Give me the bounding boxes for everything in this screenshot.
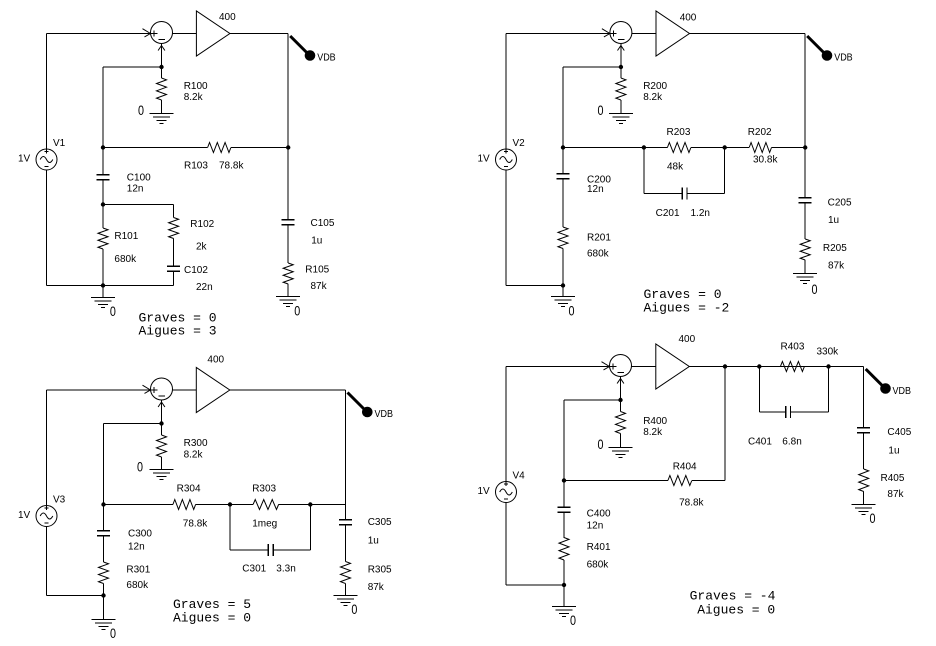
node R303 left	[228, 502, 232, 506]
svg-text:78.8k: 78.8k	[183, 519, 208, 530]
wire C100 to R101	[102, 180, 104, 229]
wire C400 to R401	[563, 512, 565, 538]
capacitor C301 3.3n	[267, 544, 269, 556]
summer U2a	[610, 22, 632, 44]
node ground Q2	[561, 283, 565, 287]
ground R400	[609, 447, 633, 449]
wire summer bottom lead Q3	[161, 400, 163, 424]
svg-text:C400: C400	[587, 509, 611, 520]
svg-text:8.2k: 8.2k	[643, 427, 663, 438]
svg-text:R304: R304	[177, 483, 201, 494]
resistor R203 48k	[667, 143, 691, 153]
wire bottom return Q3	[47, 595, 104, 597]
svg-text:0: 0	[110, 626, 116, 641]
svg-text:0: 0	[812, 282, 818, 297]
wire output riser Q4	[863, 367, 865, 428]
svg-text:0: 0	[110, 304, 116, 319]
wire C205 to R205	[804, 203, 806, 240]
svg-text:0: 0	[598, 437, 604, 452]
svg-text:1V: 1V	[478, 154, 491, 165]
capacitor C201 1.2n	[681, 187, 683, 199]
wire V2 top to summer input	[506, 33, 610, 35]
svg-text:R203: R203	[667, 127, 691, 138]
wire node to R102 branch	[103, 204, 174, 206]
wire C301 bottom left	[230, 549, 268, 551]
svg-text:C300: C300	[128, 529, 152, 540]
wire C401 bottom right	[791, 411, 829, 413]
source V3	[36, 506, 57, 527]
wire V4 riser upper	[505, 367, 507, 482]
wire output riser Q2	[804, 34, 806, 198]
svg-text:R303: R303	[252, 483, 276, 494]
svg-text:C401: C401	[748, 436, 772, 447]
capacitor C200 12n	[557, 173, 570, 175]
wire bottom return Q1	[47, 285, 174, 287]
svg-text:Aigues = 0: Aigues = 0	[697, 603, 775, 618]
wire R300 top lead	[161, 424, 163, 436]
svg-text:R401: R401	[587, 542, 611, 553]
wire row left segment Q2	[563, 147, 644, 149]
wire C105 to R105	[287, 225, 289, 264]
wire feedback stub Q3	[104, 423, 162, 425]
wire V3 top to summer input	[47, 389, 151, 391]
wire R400 top lead	[620, 400, 622, 412]
resistor R301 680k	[99, 562, 109, 584]
svg-text:C405: C405	[887, 427, 911, 438]
svg-text:R202: R202	[748, 127, 772, 138]
wire R303 left lead	[230, 504, 253, 506]
wire C305 to R305	[345, 525, 347, 562]
svg-text:VDB: VDB	[893, 386, 912, 397]
svg-text:1u: 1u	[888, 445, 899, 456]
wire C201 bottom left	[644, 193, 682, 195]
node junction below summer Q2	[619, 65, 623, 69]
svg-text:400: 400	[679, 334, 696, 345]
wire feedback stub Q2	[563, 66, 621, 68]
svg-text:680k: 680k	[587, 249, 610, 260]
svg-text:78.8k: 78.8k	[219, 161, 244, 172]
wire V1 riser upper	[46, 34, 48, 150]
node R103 right Q1	[286, 145, 290, 149]
svg-text:8.2k: 8.2k	[184, 450, 204, 461]
wire feedback stub Q4	[564, 399, 621, 401]
capacitor C401 6.8n	[785, 406, 787, 418]
svg-text:400: 400	[680, 13, 697, 24]
wire V3 riser lower	[46, 527, 48, 596]
wire C301 bottom right	[273, 549, 310, 551]
resistor R401 680k	[559, 538, 569, 561]
wire left column Q3 upper	[103, 424, 105, 531]
node R103 left Q1	[101, 145, 105, 149]
wire summer to amp Q3	[172, 389, 196, 391]
probe VDB Q4	[866, 369, 883, 386]
wire R203 left lead	[644, 147, 668, 149]
resistor R200	[616, 78, 626, 100]
resistor R403 330k	[780, 362, 804, 372]
wire R202 left lead	[725, 147, 750, 149]
svg-text:R404: R404	[673, 461, 697, 472]
wire summer bottom lead	[161, 44, 163, 68]
node row left Q4	[562, 478, 566, 482]
wire C300 to R301	[103, 536, 105, 563]
wire C405 to R405	[863, 433, 865, 469]
wire row right segment Q4	[692, 480, 725, 482]
svg-text:12n: 12n	[587, 521, 604, 532]
ground bottom Q3	[92, 619, 116, 621]
svg-text:R205: R205	[823, 243, 847, 254]
svg-text:400: 400	[207, 355, 224, 366]
wire row left segment Q4	[564, 480, 668, 482]
wire R200 bottom lead	[620, 100, 622, 114]
svg-text:R103: R103	[184, 161, 208, 172]
node ground Q1	[101, 283, 105, 287]
wire R203 right lead	[691, 147, 725, 149]
svg-text:0: 0	[138, 103, 144, 118]
svg-text:R300: R300	[184, 438, 208, 449]
wire amp output	[230, 33, 288, 35]
resistor R300	[157, 435, 167, 457]
capacitor C100 12n	[97, 174, 110, 176]
svg-text:400: 400	[219, 12, 236, 23]
wire summer to amp	[172, 33, 196, 35]
svg-text:2k: 2k	[196, 241, 208, 252]
resistor R105 87k	[283, 263, 293, 284]
op-amp E1 gain 400	[196, 11, 230, 56]
svg-text:R405: R405	[881, 473, 905, 484]
resistor R205 87k	[800, 239, 810, 260]
svg-text:87k: 87k	[368, 582, 385, 593]
ground output Q2	[793, 273, 817, 275]
wire amp output Q3	[230, 389, 346, 391]
svg-text:22n: 22n	[196, 282, 213, 293]
svg-text:1V: 1V	[478, 486, 491, 497]
capacitor C300 12n	[97, 530, 110, 532]
source V1	[36, 149, 57, 170]
wire C200 to R201	[562, 179, 564, 228]
wire V3 riser upper	[46, 390, 48, 506]
svg-text:48k: 48k	[667, 161, 684, 172]
svg-text:V1: V1	[53, 138, 66, 149]
svg-text:0: 0	[137, 460, 143, 475]
svg-text:C301: C301	[242, 564, 266, 575]
wire C401 right riser	[828, 367, 830, 413]
node R303 right	[308, 502, 312, 506]
svg-text:6.8n: 6.8n	[782, 436, 801, 447]
svg-text:C201: C201	[656, 208, 680, 219]
source V2	[496, 149, 517, 170]
wire left column Q1 upper	[102, 67, 104, 175]
source V4	[496, 482, 517, 503]
svg-text:30.8k: 30.8k	[753, 155, 778, 166]
wire R200 top lead	[620, 67, 622, 78]
svg-text:C102: C102	[184, 265, 208, 276]
node junction below summer Q3	[159, 421, 163, 425]
wire ground stub Q2	[562, 286, 564, 297]
wire C400 top lead	[563, 481, 565, 508]
wire C201 right riser	[724, 148, 726, 194]
svg-text:R200: R200	[643, 81, 667, 92]
wire R101 bottom lead	[102, 249, 104, 286]
svg-text:87k: 87k	[828, 260, 845, 271]
node C100 bottom Q1	[101, 202, 105, 206]
svg-text:0: 0	[294, 304, 300, 319]
svg-text:Aigues = 0: Aigues = 0	[173, 610, 251, 625]
resistor R100	[157, 78, 167, 100]
ground bottom Q1	[91, 297, 115, 299]
wire feedback stub Q1	[103, 66, 162, 68]
wire V2 riser upper	[505, 34, 507, 150]
wire C201 left riser	[643, 148, 645, 194]
wire C301 right riser	[309, 505, 311, 551]
resistor R305 87k	[341, 562, 351, 584]
svg-text:87k: 87k	[311, 281, 328, 292]
resistor R404 78.8k	[668, 476, 692, 486]
wire R303 right lead	[279, 504, 311, 506]
resistor R405 87k	[859, 469, 869, 492]
wire left column Q2 upper	[562, 67, 564, 174]
svg-text:Aigues = 3: Aigues = 3	[139, 324, 217, 339]
capacitor C305 1u	[339, 519, 352, 521]
probe VDB Q3	[348, 393, 365, 410]
svg-text:87k: 87k	[887, 489, 904, 500]
wire R105 ground stub	[287, 284, 289, 297]
op-amp E4 gain 400	[656, 344, 690, 389]
svg-text:12n: 12n	[127, 184, 144, 195]
node output riser Q2	[803, 145, 807, 149]
svg-text:78.8k: 78.8k	[679, 497, 704, 508]
capacitor C102 22n	[167, 265, 180, 267]
svg-text:1V: 1V	[18, 154, 31, 165]
op-amp E2 gain 400	[656, 11, 690, 56]
node junction below summer Q1	[159, 65, 163, 69]
svg-text:V2: V2	[513, 138, 526, 149]
svg-text:C205: C205	[828, 198, 852, 209]
wire ground stub Q1	[102, 286, 104, 298]
svg-text:R301: R301	[126, 564, 150, 575]
svg-text:R305: R305	[368, 565, 392, 576]
node R203 right	[723, 145, 727, 149]
ground bottom Q4	[552, 606, 576, 608]
wire summer to amp Q2	[631, 33, 656, 35]
svg-text:VDB: VDB	[317, 53, 336, 64]
svg-text:R201: R201	[587, 232, 611, 243]
capacitor C105 1u	[282, 219, 295, 221]
svg-text:12n: 12n	[128, 541, 145, 552]
wire amp output Q4	[689, 366, 863, 368]
svg-text:R100: R100	[184, 81, 208, 92]
ground output Q3	[334, 595, 358, 597]
svg-text:0: 0	[870, 511, 876, 526]
wire V4 top to summer input	[506, 366, 610, 368]
node R203 left	[642, 145, 646, 149]
wire R405 ground stub	[863, 492, 865, 505]
wire summer bottom lead Q4	[620, 377, 622, 401]
wire summer to amp Q4	[631, 366, 656, 368]
wire R300 bottom lead	[161, 457, 163, 470]
svg-text:V4: V4	[513, 471, 526, 482]
svg-text:0: 0	[598, 103, 604, 118]
ground output Q1	[276, 296, 300, 298]
wire C301 left riser	[229, 505, 231, 551]
node row left Q3	[101, 502, 105, 506]
svg-text:Graves = -4: Graves = -4	[690, 588, 776, 603]
wire V1 top to summer input	[47, 33, 151, 35]
svg-text:12n: 12n	[587, 184, 604, 195]
svg-text:1V: 1V	[18, 510, 31, 521]
svg-text:0: 0	[351, 602, 357, 617]
wire R205 ground stub	[804, 260, 806, 274]
resistor R103 78.8k	[208, 143, 231, 153]
node junction below summer Q4	[618, 398, 622, 402]
svg-text:1u: 1u	[311, 236, 322, 247]
summer U3a	[151, 378, 173, 400]
node C401 right top	[826, 364, 830, 368]
wire amp output Q2	[690, 33, 806, 35]
wire R404 riser	[724, 367, 726, 481]
svg-text:680k: 680k	[126, 580, 149, 591]
probe VDB Q1	[290, 36, 307, 53]
resistor R202 30.8k	[749, 143, 771, 153]
summer U4a	[610, 355, 632, 377]
wire output riser Q1	[287, 34, 289, 220]
svg-text:R403: R403	[781, 342, 805, 353]
svg-text:VDB: VDB	[834, 53, 853, 64]
ground output Q4	[852, 504, 876, 506]
svg-text:R102: R102	[190, 219, 214, 230]
wire C401 bottom left	[759, 411, 785, 413]
svg-text:8.2k: 8.2k	[184, 92, 204, 103]
svg-text:1.2n: 1.2n	[691, 208, 710, 219]
svg-text:0: 0	[570, 613, 576, 628]
wire bottom return Q2	[506, 285, 563, 287]
svg-text:3.3n: 3.3n	[276, 564, 295, 575]
capacitor C400 12n	[558, 506, 571, 508]
svg-text:VDB: VDB	[375, 409, 394, 420]
wire ground stub Q4	[563, 585, 565, 607]
node C401 left top	[757, 364, 761, 368]
ground R300	[150, 469, 174, 471]
svg-text:R400: R400	[643, 416, 667, 427]
summer U1a	[151, 22, 173, 44]
svg-text:1meg: 1meg	[252, 519, 277, 530]
op-amp E3 gain 400	[196, 368, 230, 413]
probe VDB Q2	[807, 36, 824, 53]
wire R103 left lead	[103, 147, 208, 149]
wire R100 bottom lead	[161, 100, 163, 114]
ground R100	[150, 113, 174, 115]
wire left column Q4 upper	[563, 400, 565, 481]
wire C102 bottom lead	[173, 271, 175, 286]
svg-text:1u: 1u	[828, 215, 839, 226]
node row left Q2	[561, 145, 565, 149]
wire R100 top lead	[161, 67, 163, 78]
svg-text:1u: 1u	[368, 535, 379, 546]
resistor R101 680k	[98, 228, 108, 249]
capacitor C205 1u	[799, 197, 812, 199]
wire R400 bottom lead	[620, 434, 622, 448]
wire V1 riser lower	[46, 170, 48, 286]
wire R102 top lead	[173, 205, 175, 218]
wire C401 left riser	[758, 367, 760, 413]
resistor R303 1meg	[253, 500, 279, 510]
svg-text:0: 0	[569, 304, 575, 319]
wire ground stub Q3	[103, 596, 105, 620]
wire R301 bottom lead	[103, 584, 105, 596]
wire V2 riser lower	[505, 170, 507, 286]
svg-text:R105: R105	[305, 265, 329, 276]
wire R202 right lead	[772, 147, 806, 149]
wire bottom return Q4	[506, 584, 564, 586]
node ground Q4	[562, 583, 566, 587]
svg-text:R101: R101	[114, 231, 138, 242]
ground R200	[609, 113, 633, 115]
node R404 riser top	[723, 364, 727, 368]
wire row to output riser Q3	[310, 504, 345, 506]
wire R103 right lead	[231, 147, 288, 149]
svg-text:680k: 680k	[587, 560, 610, 571]
svg-text:Aigues = -2: Aigues = -2	[644, 300, 730, 315]
resistor R400	[616, 412, 626, 434]
node ground Q3	[101, 593, 105, 597]
svg-text:C305: C305	[368, 517, 392, 528]
wire R401 bottom lead	[563, 560, 565, 585]
resistor R304 78.8k	[173, 500, 196, 510]
wire R201 bottom lead	[562, 249, 564, 286]
svg-text:680k: 680k	[114, 254, 137, 265]
svg-text:C105: C105	[311, 218, 335, 229]
wire R305 ground stub	[345, 584, 347, 596]
ground bottom Q2	[551, 296, 575, 298]
wire R102 to C102	[173, 239, 175, 267]
wire V4 riser lower	[505, 503, 507, 586]
wire row left segment Q3	[104, 504, 173, 506]
wire summer bottom lead Q2	[620, 44, 622, 68]
resistor R102 2k	[169, 218, 179, 239]
capacitor C405 1u	[857, 427, 870, 429]
wire C201 bottom right	[687, 193, 725, 195]
resistor R201 680k	[558, 227, 568, 249]
svg-text:330k: 330k	[817, 347, 840, 358]
wire R304 right lead	[196, 504, 230, 506]
svg-text:8.2k: 8.2k	[643, 92, 663, 103]
svg-text:C100: C100	[127, 173, 151, 184]
svg-text:V3: V3	[53, 495, 66, 506]
wire output riser Q3	[345, 390, 347, 520]
